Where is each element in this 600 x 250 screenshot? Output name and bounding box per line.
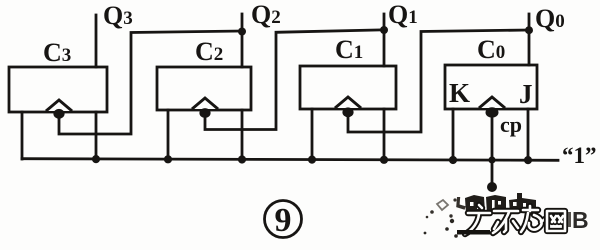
flip-flop U1 box bbox=[300, 66, 396, 109]
wire Q0 output vertical bbox=[528, 14, 531, 65]
junction dot bus at x=492 (cp crossing) bbox=[488, 156, 495, 163]
junction dot bus at x=528 bbox=[524, 156, 532, 164]
svg-text:K: K bbox=[449, 78, 470, 108]
circled figure number 9 bbox=[265, 201, 302, 240]
flip-flop U0 box bbox=[445, 65, 537, 109]
junction dot bus at x=384 bbox=[380, 156, 388, 164]
junction dot bus at x=96 bbox=[92, 155, 100, 163]
watermark suffix B bbox=[568, 207, 589, 233]
flip-flop U2 box bbox=[157, 67, 251, 110]
watermark logo glyph 3 bbox=[521, 206, 545, 232]
junction dot Q0 line bbox=[525, 26, 533, 34]
junction dot bus at x=312 bbox=[308, 156, 316, 164]
junction dot U3 clock bbox=[53, 109, 64, 119]
junction dot cp terminal bbox=[487, 182, 497, 192]
wire Q3 output vertical bbox=[95, 15, 98, 67]
watermark stray dots bbox=[424, 219, 458, 238]
junction dot bus at x=453 bbox=[449, 156, 457, 164]
junction dot U1 clock bbox=[342, 107, 353, 117]
junction dot Q1 line bbox=[380, 26, 388, 34]
watermark logo glyph 2 bbox=[493, 211, 518, 233]
wire U2 K input stub to bus bbox=[167, 110, 170, 159]
wire Q0 to U1 clock bbox=[348, 30, 529, 132]
flip-flop U3 box bbox=[9, 67, 107, 112]
clock wedge U1 bbox=[335, 97, 361, 108]
wire U3 J input stub to bus bbox=[95, 112, 98, 159]
wire U3 K input stub to bus bbox=[21, 112, 24, 159]
svg-text:cp: cp bbox=[500, 112, 522, 137]
watermark logo glyph 4 bbox=[547, 211, 565, 231]
wire Q2 output vertical bbox=[241, 14, 244, 67]
wire Q1 to U2 clock bbox=[205, 30, 384, 130]
svg-text:9: 9 bbox=[275, 202, 292, 239]
svg-text:J: J bbox=[519, 79, 533, 109]
wire cp clock input vertical bbox=[491, 113, 494, 187]
wire "1" bus horizontal bbox=[22, 159, 558, 161]
wire Q2 to U3 clock bbox=[59, 31, 242, 134]
junction dot U0 clock (cp) bbox=[486, 107, 499, 117]
clock wedge U2 bbox=[192, 98, 218, 109]
svg-text:“1”: “1” bbox=[562, 143, 597, 168]
wire U0 K input stub to bus bbox=[452, 109, 455, 159]
junction dot U2 clock bbox=[199, 108, 210, 118]
clock wedge U3 bbox=[46, 100, 72, 111]
wire U0 J input stub to bus bbox=[527, 109, 530, 159]
wire U1 K input stub to bus bbox=[311, 109, 314, 159]
wire Q1 output vertical bbox=[383, 14, 386, 66]
junction dot Q2 line bbox=[238, 28, 246, 36]
junction dot bus at x=168 bbox=[164, 155, 172, 163]
wire U1 J input stub to bus bbox=[383, 109, 386, 159]
junction dot bus at x=242 bbox=[238, 155, 246, 163]
svg-text:B: B bbox=[572, 207, 589, 233]
clock wedge U0 bbox=[479, 97, 505, 108]
watermark logo glyph 1 bbox=[465, 205, 490, 234]
wire U2 J input stub to bus bbox=[241, 110, 244, 159]
label counting-pulse text (stylized faded marks) bbox=[426, 193, 536, 218]
watermark underline mark bbox=[457, 230, 490, 235]
